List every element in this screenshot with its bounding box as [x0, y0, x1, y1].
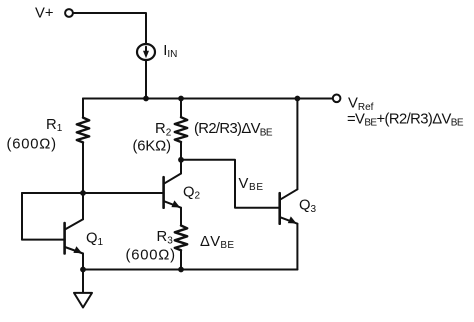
svg-text:(600Ω): (600Ω)	[7, 136, 57, 152]
node R2 top	[178, 96, 184, 102]
wire Q3 emitter vertical	[296, 224, 298, 270]
node R2 bottom / Q2 collector	[178, 157, 184, 163]
wire bottom bus	[83, 269, 297, 271]
svg-text:R1: R1	[46, 117, 63, 134]
ground	[74, 270, 92, 308]
svg-text:Q3: Q3	[299, 198, 317, 215]
current source IIN	[137, 44, 155, 60]
node current source / top bus	[143, 96, 149, 102]
wire R1 bottom to Q1 collector node	[82, 142, 84, 193]
wire VBE node: R2 bottom to Q3 base	[181, 160, 280, 208]
svg-text:V+: V+	[35, 5, 54, 21]
wire Q2 emitter to R3	[180, 208, 182, 226]
terminal VRef	[333, 95, 341, 103]
transistor Q2	[164, 174, 181, 208]
wire R3 bottom lead	[180, 250, 182, 269]
terminal V+	[65, 9, 73, 17]
wire top bus	[83, 98, 333, 100]
svg-text:IIN: IIN	[163, 43, 177, 60]
wire Q1 emitter vertical	[82, 254, 84, 270]
node Q1 collector / R1	[80, 190, 86, 196]
wire base bus Q1/Q2	[22, 192, 164, 194]
wire R1 top lead	[82, 99, 84, 118]
wire Q3 collector vertical	[296, 99, 298, 190]
svg-text:R3: R3	[157, 229, 174, 246]
svg-text:R2: R2	[155, 121, 172, 138]
wire Q1 collector vertical	[82, 193, 84, 219]
svg-text:VBE: VBE	[239, 176, 264, 193]
resistor R1	[77, 118, 89, 143]
node R3 bottom	[178, 267, 184, 273]
wire R2 bottom lead	[180, 142, 182, 160]
svg-text:Q1: Q1	[86, 231, 104, 248]
svg-text:(R2/R3)ΔVBE: (R2/R3)ΔVBE	[194, 121, 273, 138]
wire Q1 base	[22, 239, 65, 241]
wire V+ to current source	[73, 13, 146, 44]
transistor Q3	[280, 189, 298, 223]
svg-text:=VBE+(R2/R3)ΔVBE: =VBE+(R2/R3)ΔVBE	[347, 111, 464, 128]
resistor R2	[175, 117, 187, 142]
transistor Q1	[65, 219, 83, 253]
resistor R3	[175, 226, 187, 251]
svg-text:(600Ω): (600Ω)	[126, 247, 176, 263]
wire feedback left vertical	[21, 193, 23, 240]
node Q3 collector / top bus	[295, 96, 301, 102]
wire current source to top bus	[145, 60, 147, 99]
wire R2 top lead	[180, 99, 182, 118]
node Q1 emitter / ground	[80, 267, 86, 273]
svg-text:ΔVBE: ΔVBE	[200, 234, 234, 251]
svg-text:(6KΩ): (6KΩ)	[133, 139, 172, 155]
wire Q2 collector vertical	[180, 160, 182, 174]
svg-text:Q2: Q2	[183, 184, 201, 201]
